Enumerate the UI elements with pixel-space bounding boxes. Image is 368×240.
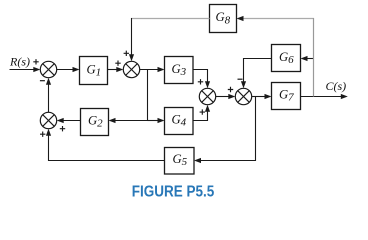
sign + at S4 left input (228, 87, 233, 92)
summing junction S2 (123, 61, 139, 77)
sign + at S2 left input (115, 61, 120, 66)
summing junction S3 (199, 88, 215, 104)
svg-text:R(s): R(s) (9, 54, 30, 68)
wire G2 output to summing junction S5 (57, 118, 81, 123)
sign + at S3 bottom input (200, 109, 205, 114)
wire G7 to C(s) output (301, 94, 348, 99)
node C(s) label (326, 79, 347, 93)
wire tap to G4 input (rightward) (148, 118, 165, 123)
caption FIGURE P5.5 (132, 184, 215, 201)
wire feedback tap to G6 input (301, 56, 314, 61)
block G3 (165, 57, 194, 84)
summing junction S4 (235, 88, 251, 104)
block G7 (272, 83, 301, 110)
wire S4 to G7 (252, 94, 272, 99)
block G4 (165, 108, 194, 135)
summing junction S5 (40, 112, 56, 128)
wire G4 output right then up into S3 bottom (193, 105, 210, 121)
summing junction S1 (40, 61, 56, 77)
node R(s) label (9, 54, 30, 68)
wire G3 output right then down into S3 top (193, 70, 210, 89)
sign + at S5 bottom input (40, 132, 45, 137)
wire right feedback into G8 (gray horizontal) (237, 16, 315, 21)
wire S3 to summing junction S4 (216, 94, 236, 99)
wire S5 output up to S1 bottom input (46, 78, 51, 113)
wire R(s) input to summing junction S1 (10, 67, 41, 72)
wire tap after S4 down then left into G5 input (194, 97, 256, 164)
svg-text:C(s): C(s) (326, 79, 347, 93)
svg-text:FIGURE P5.5: FIGURE P5.5 (132, 184, 215, 201)
sign + at S5 right input (60, 126, 65, 131)
wire tap on main line down to G2/G4 row (147, 70, 149, 121)
block G1 (80, 57, 108, 85)
wire G1 to summing junction S2 (108, 67, 124, 72)
wire S1 to G1 (57, 67, 80, 72)
block G2 (81, 109, 109, 136)
block G8 (210, 5, 237, 33)
wire G8 output left (gray horizontal) (131, 18, 210, 20)
sign + at S1 left input (33, 59, 38, 64)
wire S2 to G3 (140, 67, 165, 72)
sign - at S1 bottom input (40, 80, 45, 82)
wire G5 output left then up into S5 bottom (46, 129, 165, 161)
sign - at S4 top input (238, 78, 243, 80)
wire tap to G2 input (leftward) (109, 118, 148, 123)
wire output node up the right side (gray vertical) (313, 18, 315, 97)
sign + at S3 top input (198, 79, 203, 84)
wire G8 output down into S2 top (129, 18, 134, 61)
block G5 (165, 148, 195, 175)
block G6 (272, 45, 301, 72)
sign + at S2 top input (124, 51, 129, 56)
wire G6 output left then down into S4 top (241, 59, 272, 89)
